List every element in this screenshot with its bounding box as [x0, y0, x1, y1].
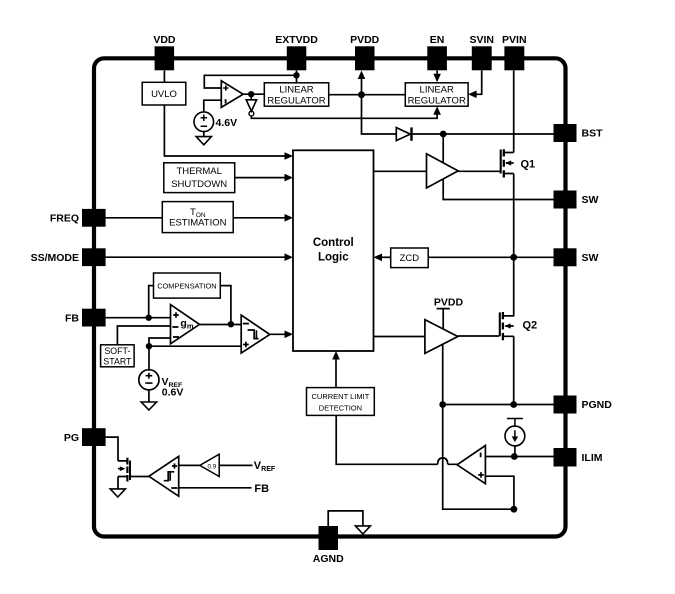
wire VREF junction down to source — [148, 346, 150, 371]
wire junction up to PVDD pin — [361, 76, 363, 95]
wire ZCD to SW pin — [428, 256, 553, 258]
node PGND junction left — [439, 401, 446, 408]
svg-text:DETECTION: DETECTION — [319, 403, 362, 412]
wire FREQ pin to Ton block — [106, 217, 163, 219]
svg-text:COMPENSATION: COMPENSATION — [157, 282, 216, 291]
pin SW bottom — [554, 248, 599, 266]
block ZCD — [391, 248, 429, 268]
svg-text:ILIM: ILIM — [582, 452, 603, 464]
wire comparator output — [243, 93, 264, 95]
block UVLO — [142, 82, 186, 105]
transistor Q2 — [500, 312, 537, 340]
svg-text:PVDD: PVDD — [434, 297, 464, 309]
svg-text:EXTVDD: EXTVDD — [275, 34, 318, 46]
wire 0.9 gain to VREF label — [219, 464, 252, 466]
pin EXTVDD — [275, 34, 318, 71]
ground below VREF source — [141, 390, 156, 410]
wire comparator minus input — [204, 100, 221, 112]
svg-text:BST: BST — [582, 128, 604, 140]
wire driver2 output to Q2 gate — [458, 335, 499, 337]
node BST junction — [440, 131, 447, 138]
node bottom junction — [511, 506, 518, 513]
wire comparator plus input from EXTVDD — [204, 75, 296, 88]
svg-text:SHUTDOWN: SHUTDOWN — [171, 179, 227, 190]
svg-text:UVLO: UVLO — [151, 89, 177, 100]
wire AGND pin to ground — [328, 511, 363, 526]
wire UVLO to Control Logic — [164, 105, 288, 156]
pin FB — [65, 309, 106, 327]
wire VDD to UVLO — [163, 71, 165, 83]
wire EXTVDD pin to regulator — [296, 71, 298, 83]
pin AGND — [313, 526, 344, 565]
wire SS/MODE pin to control logic — [106, 256, 288, 258]
ground below PMOS — [110, 489, 125, 497]
op-amp UVLO comparator — [221, 81, 243, 108]
node comparator output junction — [248, 91, 254, 97]
wire gm output to PWM comparator — [200, 324, 241, 326]
svg-text:LINEAR: LINEAR — [420, 84, 454, 95]
block Ton estimation — [162, 202, 233, 233]
pin ILIM — [554, 448, 603, 467]
wire VREF junction to PWM comparator plus — [149, 345, 241, 347]
svg-text:FB: FB — [254, 483, 269, 495]
transistor Q1 — [501, 149, 535, 177]
node gm output junction — [228, 321, 234, 327]
svg-text:4.6V: 4.6V — [216, 117, 238, 129]
svg-text:PG: PG — [64, 432, 79, 444]
ground AGND — [355, 526, 370, 534]
svg-text:SVIN: SVIN — [469, 34, 494, 46]
svg-text:REGULATOR: REGULATOR — [267, 95, 325, 106]
wire control logic to driver Q1 — [374, 170, 427, 172]
wire driver1 bottom to SW — [443, 180, 553, 200]
wire Ton estimation to control logic — [233, 217, 288, 219]
node FB junction — [146, 315, 152, 321]
wire comparator output to current limit detection with hop — [336, 415, 457, 464]
wire PG pin to PMOS — [106, 437, 118, 461]
pin SVIN — [469, 34, 494, 71]
svg-text:SW: SW — [582, 194, 599, 206]
wire PVIN pin down to Q1 drain — [513, 71, 515, 153]
svg-text:Logic: Logic — [318, 251, 349, 263]
wire driver2 bottom to PGND — [442, 345, 444, 405]
comparator PWM — [241, 315, 270, 353]
svg-text:Q2: Q2 — [523, 320, 538, 332]
pin SS/MODE — [31, 248, 106, 266]
wire PGND rail to pin — [443, 404, 554, 406]
svg-text:REGULATOR: REGULATOR — [408, 95, 466, 106]
current source ILIM — [505, 419, 525, 457]
source VREF 0.6V — [139, 370, 184, 399]
wire compensation to gm output — [220, 286, 231, 324]
wire SVIN pin to regulator 2 — [474, 71, 482, 95]
pin PGND — [554, 396, 613, 414]
pin PVDD — [350, 34, 380, 71]
block linear regulator 1 — [264, 83, 328, 107]
node EXTVDD junction — [293, 72, 299, 78]
driver Q1 buffer — [427, 154, 459, 188]
svg-text:FB: FB — [65, 312, 79, 324]
wire junction down to diode — [362, 95, 397, 134]
comparator current limit — [457, 446, 485, 484]
wire open-drain output to regulator 2 enable — [251, 112, 437, 119]
pin BST — [554, 124, 604, 142]
wire ZCD to control logic — [379, 256, 391, 258]
wire BST junction down to driver1 — [442, 134, 444, 163]
block soft-start — [101, 345, 135, 367]
svg-text:VDD: VDD — [153, 34, 176, 46]
wire Q1 source down to SW node — [513, 174, 515, 258]
pin SW top — [554, 191, 599, 209]
comparator PG — [149, 456, 179, 496]
pin EN — [427, 34, 447, 71]
svg-text:THERMAL: THERMAL — [176, 166, 221, 177]
wire FB junction up to compensation — [149, 286, 154, 318]
svg-text:CURRENT LIMIT: CURRENT LIMIT — [312, 392, 370, 401]
gain 0.9 block — [200, 454, 219, 476]
svg-text:0.9: 0.9 — [208, 464, 217, 471]
block compensation — [154, 273, 221, 298]
svg-text:Q1: Q1 — [521, 159, 536, 171]
svg-text:PGND: PGND — [582, 399, 613, 411]
svg-text:AGND: AGND — [313, 553, 344, 565]
wire FB label to PG comparator minus — [179, 487, 252, 489]
block thermal shutdown — [164, 163, 235, 193]
wire regulator1 to regulator2 — [329, 94, 406, 96]
svg-text:LINEAR: LINEAR — [279, 84, 313, 95]
wire bottom junction up to comparator plus — [485, 476, 514, 509]
node VREF junction — [146, 343, 152, 349]
transistor PG PMOS — [118, 458, 130, 489]
svg-text:FREQ: FREQ — [50, 213, 79, 225]
inverter open-drain symbol — [246, 94, 256, 116]
source 4.6V reference — [194, 112, 237, 132]
node ILIM junction — [511, 453, 518, 460]
block linear regulator 2 — [405, 83, 468, 107]
wire driver1 output to Q1 gate — [458, 170, 500, 172]
wire Q2 source down to PGND — [513, 336, 515, 404]
wire diode to BST pin — [412, 133, 553, 135]
wire ILIM to comparator minus — [485, 456, 553, 458]
svg-text:Control: Control — [313, 237, 354, 249]
wire FB pin to gm amp — [106, 317, 171, 319]
block control logic — [293, 150, 374, 351]
pin VDD — [153, 34, 176, 71]
svg-text:SOFT-: SOFT- — [104, 346, 130, 356]
node SW junction — [510, 254, 517, 261]
node PGND junction right — [510, 401, 517, 408]
pin FREQ — [50, 209, 106, 227]
svg-text:ESTIMATION: ESTIMATION — [169, 218, 226, 229]
node PVDD junction — [358, 91, 365, 98]
wire thermal shutdown to control logic — [235, 177, 288, 179]
svg-text:SW: SW — [582, 252, 599, 264]
wire EN pin to regulator 2 — [436, 71, 438, 77]
pin PG — [64, 428, 106, 446]
svg-text:EN: EN — [430, 34, 445, 46]
driver Q2 buffer — [425, 320, 458, 354]
svg-text:SS/MODE: SS/MODE — [31, 252, 79, 264]
wire current limit detection to control logic — [335, 356, 337, 388]
wire PG comparator plus to 0.9 gain — [179, 464, 200, 466]
wire PWM output to control logic — [270, 333, 289, 335]
wire VREF to gm amp — [149, 338, 170, 346]
wire PGND junction down — [443, 405, 514, 510]
IC outline border — [94, 58, 566, 536]
svg-text:PVDD: PVDD — [350, 34, 380, 46]
ground below 4.6V source — [196, 132, 211, 145]
pin PVIN — [502, 34, 527, 71]
svg-text:ZCD: ZCD — [400, 253, 420, 264]
wire soft-start to gm amp — [117, 326, 170, 345]
wire SW node down to Q2 drain — [503, 257, 514, 316]
svg-text:START: START — [103, 357, 132, 367]
wire comparator PG output to gate — [130, 476, 149, 478]
block current limit detection — [307, 388, 375, 416]
wire control logic to driver Q2 — [374, 336, 425, 338]
svg-text:0.6V: 0.6V — [162, 387, 184, 399]
diode bootstrap — [396, 127, 411, 140]
label PVDD driver supply — [434, 297, 464, 330]
op-amp gm error amplifier — [171, 305, 200, 344]
svg-text:PVIN: PVIN — [502, 34, 527, 46]
